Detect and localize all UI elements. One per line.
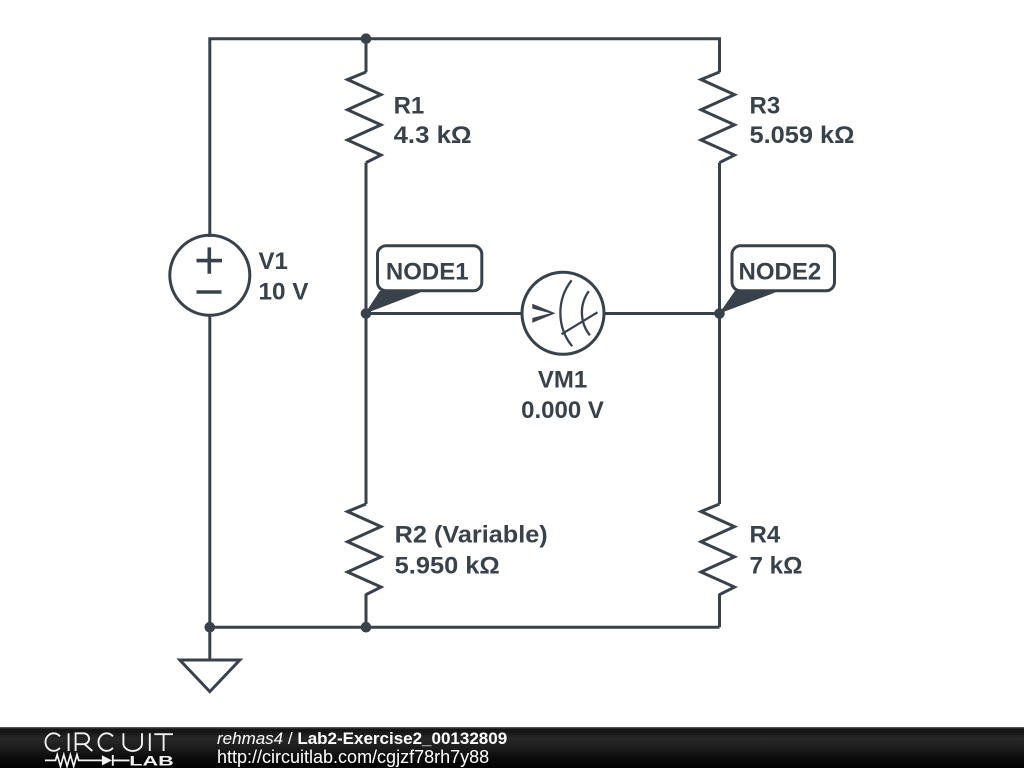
voltmeter dial arc inner (582, 291, 590, 335)
logo letter I (149, 733, 151, 751)
junction dot bottom of R2 (361, 622, 372, 633)
svg-text:R4: R4 (750, 522, 781, 549)
V1 minus sign (197, 290, 222, 294)
node NODE2 callout box (732, 246, 835, 291)
logo letter C (45, 733, 59, 751)
resistor R1 (348, 72, 382, 163)
voltmeter VM1 circle (522, 272, 604, 354)
svg-text:NODE1: NODE1 (386, 258, 469, 285)
svg-text:5.059 kΩ: 5.059 kΩ (750, 122, 855, 149)
logo letter U (123, 733, 142, 751)
wire NODE2 to R4 (718, 314, 721, 505)
logo letter R (76, 733, 93, 751)
svg-text:R3: R3 (750, 93, 781, 120)
wire R2 bottom stub (365, 594, 368, 627)
wire R4 bottom stub (718, 594, 721, 627)
CircuitLab logo (0, 727, 200, 768)
wire NODE1 to R2 (365, 314, 368, 505)
logo letter I (68, 733, 70, 751)
voltmeter needle (562, 312, 598, 334)
svg-text:10 V: 10 V (259, 279, 309, 306)
V1 plus sign (197, 247, 223, 273)
svg-text:5.950 kΩ: 5.950 kΩ (395, 552, 500, 579)
svg-text:V1: V1 (259, 248, 288, 275)
wire top-left rail (210, 39, 720, 237)
logo diode cathode bar and wire (113, 755, 130, 766)
svg-text:7 kΩ: 7 kΩ (750, 552, 803, 579)
svg-text:R1: R1 (394, 93, 425, 120)
logo letter T (154, 734, 173, 751)
footer url line (217, 748, 489, 766)
resistor R4 (701, 504, 735, 595)
svg-text:VM1: VM1 (538, 367, 587, 394)
resistor R3 (701, 72, 735, 163)
wire bottom rail (210, 626, 720, 629)
node NODE2 junction dot (714, 308, 725, 319)
ground (180, 660, 240, 692)
wire voltmeter to NODE2 (603, 312, 720, 315)
svg-text:0.000 V: 0.000 V (521, 397, 604, 424)
wire R1 to NODE1 (365, 163, 368, 314)
voltmeter dial arc outer (560, 280, 572, 346)
wire ground stub (208, 627, 211, 660)
logo letter C (98, 733, 112, 751)
footer bar (0, 727, 1024, 768)
logo diode triangle (102, 755, 112, 765)
svg-text:LAB: LAB (129, 753, 174, 768)
node NODE1 junction dot (361, 308, 372, 319)
node NODE2 callout tail (719, 291, 776, 314)
junction dot top of R1 (361, 33, 372, 44)
node NODE1 callout box (378, 246, 482, 291)
wire NODE1 to voltmeter (366, 312, 522, 315)
logo resistor squiggle and wire (45, 755, 102, 767)
voltmeter chevron (532, 304, 555, 323)
wire R1 top stub (365, 39, 368, 73)
node NODE1 callout tail (365, 291, 421, 314)
svg-text:NODE2: NODE2 (739, 258, 822, 285)
voltage source V1 (170, 235, 250, 315)
footer title line (217, 730, 507, 747)
resistor R2 (348, 504, 382, 595)
svg-text:4.3 kΩ: 4.3 kΩ (394, 122, 472, 149)
wire left rail lower (208, 315, 211, 627)
svg-text:R2 (Variable): R2 (Variable) (395, 522, 548, 549)
wire R3 to NODE2 (718, 163, 721, 314)
junction dot ground tap (205, 622, 216, 633)
